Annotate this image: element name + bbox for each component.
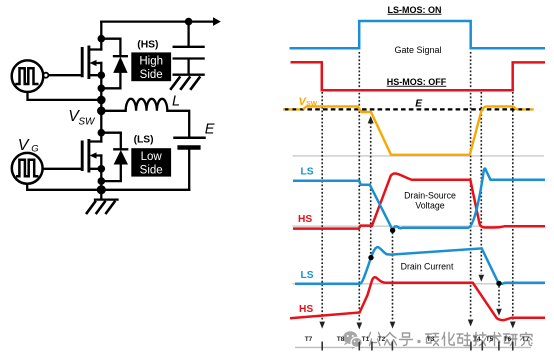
svg-text:T7: T7 (522, 336, 530, 343)
svg-text:LS: LS (301, 270, 314, 281)
svg-text:Voltage: Voltage (415, 201, 444, 211)
svg-text:Drain Current: Drain Current (401, 262, 454, 272)
svg-text:(LS): (LS) (134, 135, 154, 146)
svg-text:V: V (18, 137, 30, 154)
svg-text:T3: T3 (427, 336, 435, 343)
svg-text:HS: HS (299, 304, 313, 315)
svg-text:T2: T2 (378, 336, 386, 343)
svg-text:High: High (139, 56, 163, 68)
svg-text:Side: Side (140, 165, 163, 177)
svg-text:SW: SW (306, 100, 317, 107)
svg-text:Drain-Source: Drain-Source (404, 191, 456, 201)
svg-text:T1: T1 (362, 336, 370, 343)
svg-text:LS-MOS: ON: LS-MOS: ON (388, 5, 442, 15)
svg-text:LS: LS (301, 167, 314, 178)
svg-text:T6: T6 (504, 336, 512, 343)
svg-text:Low: Low (141, 151, 163, 163)
svg-text:L: L (172, 93, 180, 109)
svg-text:(HS): (HS) (137, 40, 158, 51)
svg-text:T8: T8 (337, 336, 345, 343)
svg-text:E: E (415, 99, 423, 110)
svg-text:T4: T4 (473, 336, 481, 343)
svg-text:T5: T5 (486, 336, 494, 343)
svg-text:SW: SW (78, 117, 96, 128)
svg-text:HS: HS (298, 214, 312, 225)
svg-text:HS-MOS: OFF: HS-MOS: OFF (387, 77, 447, 87)
svg-text:G: G (31, 144, 38, 155)
svg-text:Side: Side (140, 69, 163, 81)
svg-text:T7: T7 (305, 336, 313, 343)
svg-text:E: E (205, 122, 215, 138)
svg-text:Gate Signal: Gate Signal (394, 45, 441, 55)
